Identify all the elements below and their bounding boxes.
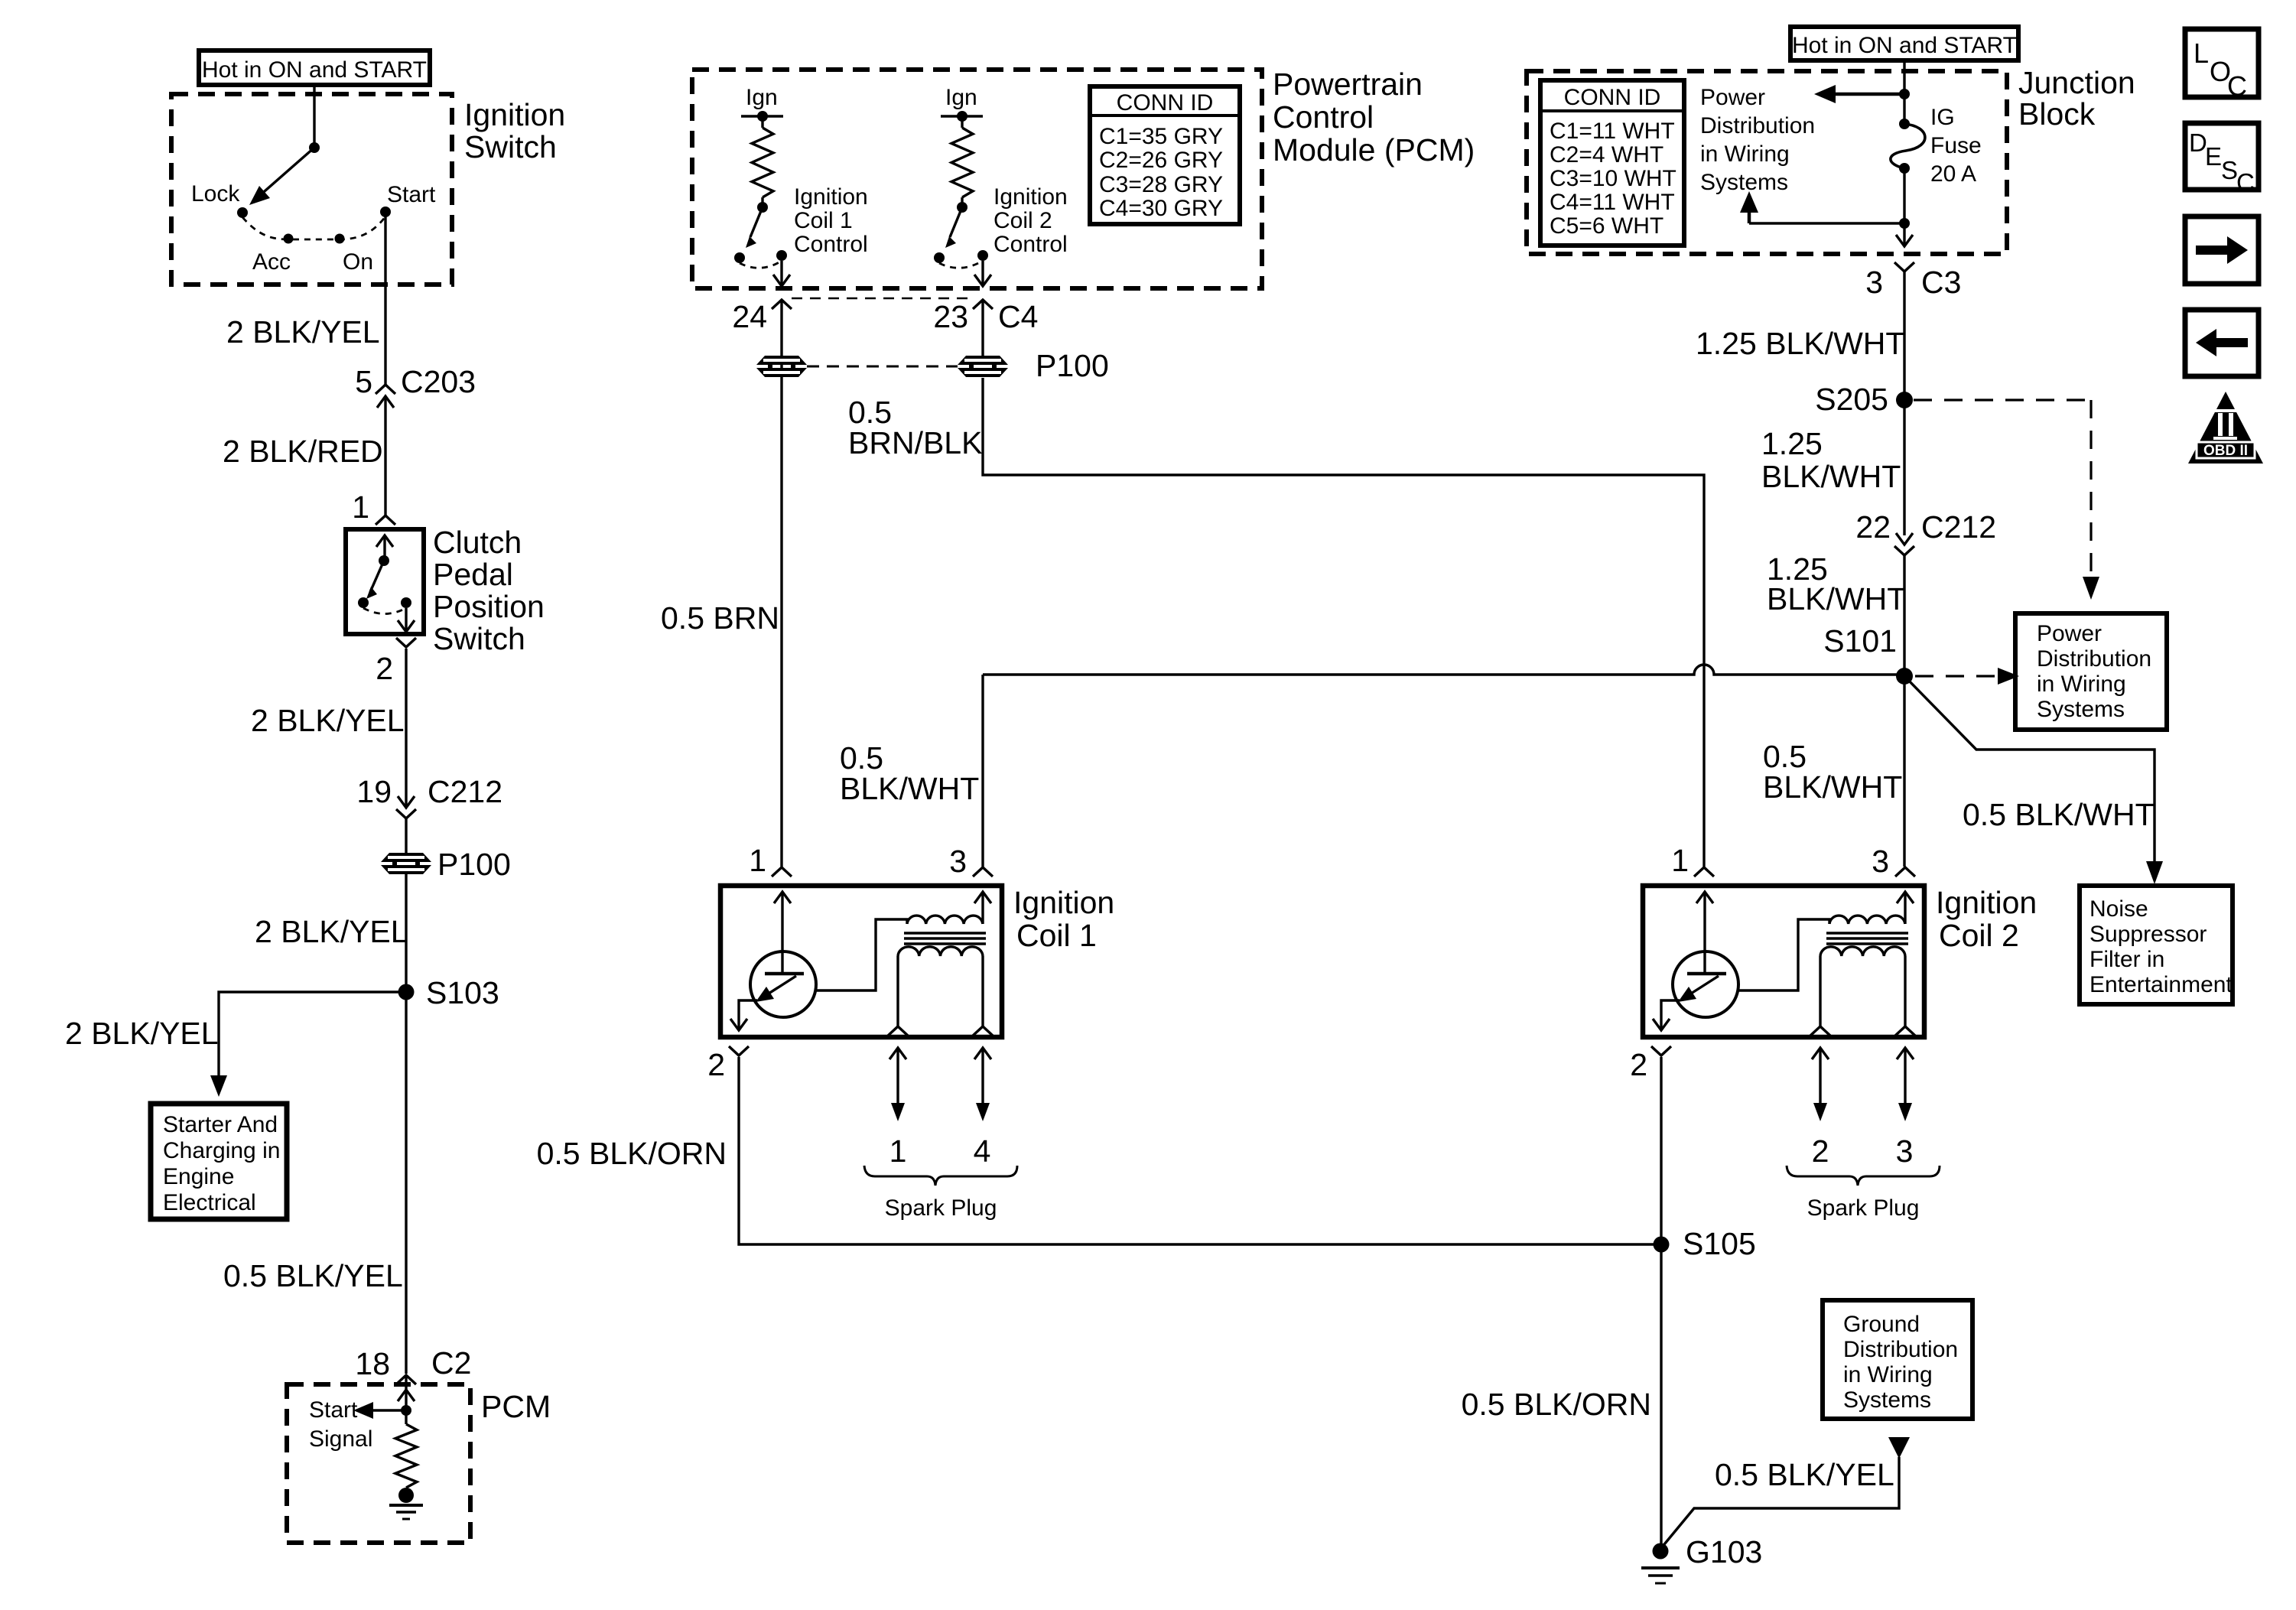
connector C203 symbol (double chevron): [376, 385, 395, 394]
wire: P100 to splice S103: [405, 874, 407, 992]
branch wire from S103 to Starter And Charging reference: [219, 992, 406, 1077]
svg-text:0.5 BLK/ORN: 0.5 BLK/ORN: [1462, 1387, 1651, 1422]
svg-text:BRN/BLK: BRN/BLK: [848, 425, 982, 460]
svg-text:22: 22: [1855, 509, 1891, 545]
svg-text:S101: S101: [1823, 623, 1897, 659]
clutch switch detent arc (dashed): [363, 608, 406, 614]
svg-text:Systems: Systems: [2037, 697, 2125, 722]
Lock contact: [237, 207, 248, 218]
splice S205: [1896, 392, 1913, 408]
svg-text:C4=11 WHT: C4=11 WHT: [1550, 190, 1675, 215]
svg-text:CONN ID: CONN ID: [1564, 85, 1661, 110]
svg-text:Ign: Ign: [746, 85, 778, 110]
Acc contact: [284, 234, 294, 244]
wire: S205 to C212: [1903, 400, 1905, 535]
svg-text:Fuse: Fuse: [1930, 133, 1982, 158]
svg-text:Filter in: Filter in: [2089, 947, 2164, 972]
svg-text:Ignition: Ignition: [1936, 885, 2037, 920]
svg-text:S: S: [2221, 156, 2238, 184]
svg-text:Distribution: Distribution: [1843, 1337, 1958, 1362]
svg-text:Control: Control: [1273, 99, 1374, 135]
clutch switch internal arrow down: [405, 608, 407, 630]
coil 1 secondary right terminal: [981, 956, 984, 1026]
driver resistor 1: [761, 116, 763, 128]
svg-text:4: 4: [974, 1134, 991, 1169]
svg-text:in Wiring: in Wiring: [1843, 1362, 1933, 1387]
svg-text:19: 19: [356, 774, 392, 809]
CONN ID table (junction block): [1540, 80, 1684, 246]
coil 2 pin 2 connector chevron: [1651, 1046, 1671, 1055]
svg-text:L: L: [2194, 37, 2209, 69]
coil 1 secondary left terminal: [896, 956, 899, 1026]
wire: S101 down to coil 2 pin 3: [1903, 676, 1905, 867]
svg-text:0.5 BLK/YEL: 0.5 BLK/YEL: [223, 1258, 403, 1293]
wire: S103 down to PCM pin 18: [405, 992, 407, 1374]
svg-text:C5=6 WHT: C5=6 WHT: [1550, 213, 1663, 239]
LOC icon box: [2185, 29, 2259, 97]
coil 2 transistor emitter with arrowhead: [1683, 976, 1719, 999]
junction block dashed outline: [1527, 71, 2007, 254]
svg-text:in Wiring: in Wiring: [2037, 672, 2126, 697]
svg-text:On: On: [343, 249, 373, 275]
svg-text:CONN ID: CONN ID: [1117, 90, 1214, 115]
svg-text:3: 3: [1896, 1134, 1914, 1169]
svg-text:2 BLK/RED: 2 BLK/RED: [223, 434, 383, 469]
svg-text:Coil 1: Coil 1: [1016, 918, 1097, 953]
svg-text:0.5 BLK/YEL: 0.5 BLK/YEL: [1715, 1457, 1894, 1492]
svg-text:Coil 2: Coil 2: [994, 208, 1052, 233]
off-page reference box: Noise Suppressor Filter in Entertainment: [2080, 886, 2233, 1004]
wire: down to coil 1 pin 3: [981, 675, 984, 867]
ignition switch movable arm with arrowhead to Lock: [259, 148, 314, 197]
connector C3 chevron: [1894, 262, 1914, 272]
driver 1 detent arc (dashed): [740, 261, 782, 268]
clutch switch pin 1 connector chevron: [376, 516, 395, 525]
svg-text:Spark Plug: Spark Plug: [1807, 1195, 1920, 1221]
driver 1 output node: [761, 197, 763, 203]
svg-text:3: 3: [949, 844, 967, 879]
svg-text:Switch: Switch: [433, 621, 525, 656]
pass-through connector P100 (coil 1 control): [756, 356, 807, 365]
coil 2 pin 1 internal arrow up / transistor collector: [1703, 893, 1706, 974]
pass-through connector P100 (coil 2 control): [958, 356, 1008, 365]
pin 23 connector chevron: [973, 300, 993, 309]
splice S105: [1654, 1237, 1670, 1253]
svg-text:Hot in ON and START: Hot in ON and START: [1792, 33, 2017, 58]
wire: clutch switch to C212: [405, 649, 407, 806]
off-page reference box: Power Distribution in Wiring Systems: [2015, 613, 2167, 730]
svg-text:1.25: 1.25: [1761, 426, 1823, 461]
driver 2 switch arm with arrowhead: [950, 207, 962, 237]
svg-text:C3: C3: [1921, 265, 1961, 300]
svg-text:Power: Power: [2037, 621, 2102, 646]
ignition coil 2 box: [1643, 886, 1924, 1037]
svg-text:C212: C212: [428, 774, 502, 809]
solid left arrow to power distribution: [1836, 93, 1904, 96]
svg-text:P100: P100: [437, 847, 511, 882]
clutch switch pin 2 connector chevron: [396, 638, 416, 647]
svg-text:Systems: Systems: [1843, 1387, 1931, 1413]
coil 1 core: [904, 932, 986, 934]
svg-text:0.5 BRN: 0.5 BRN: [661, 600, 779, 636]
wire: C212 to P100: [405, 818, 407, 853]
svg-text:0.5 BLK/ORN: 0.5 BLK/ORN: [537, 1136, 727, 1171]
pass-through connector P100 (left): [381, 853, 431, 862]
svg-text:Position: Position: [433, 589, 545, 624]
svg-text:C4=30 GRY: C4=30 GRY: [1099, 196, 1223, 221]
svg-text:Engine: Engine: [163, 1164, 234, 1189]
connector C212 (right) symbol: [1896, 533, 1913, 545]
dashed branch from S205 to power distribution reference: [1914, 398, 2091, 401]
svg-text:2 BLK/YEL: 2 BLK/YEL: [255, 914, 408, 949]
svg-text:Acc: Acc: [252, 249, 291, 275]
detent arc Lock-Acc-On-Start (dashed): [242, 216, 385, 239]
svg-text:2: 2: [1812, 1134, 1829, 1169]
fuse-supply tag box: Hot in ON and START (right): [1790, 27, 2018, 60]
svg-text:C203: C203: [401, 364, 476, 399]
svg-text:C3=10 WHT: C3=10 WHT: [1550, 166, 1676, 191]
clutch pedal position switch box: [346, 529, 424, 634]
svg-text:C1=35 GRY: C1=35 GRY: [1099, 124, 1223, 149]
svg-text:0.5 BLK/WHT: 0.5 BLK/WHT: [1963, 797, 2155, 832]
svg-text:1: 1: [889, 1134, 907, 1169]
driver 1 left contact: [734, 252, 745, 263]
svg-text:Spark Plug: Spark Plug: [885, 1195, 997, 1221]
svg-text:Block: Block: [2018, 96, 2096, 132]
svg-text:Start: Start: [309, 1397, 358, 1423]
coil 1 pin 1 internal arrow up / transistor collector: [781, 893, 783, 974]
clutch switch internal arrow up: [383, 537, 385, 559]
svg-text:Ignition: Ignition: [994, 184, 1068, 210]
back arrow icon box: [2185, 310, 2259, 376]
coil 1 primary winding: [907, 916, 983, 924]
Start contact: [380, 207, 391, 217]
coil 2 driver transistor: [1673, 951, 1738, 1017]
svg-text:Control: Control: [794, 232, 868, 257]
svg-text:Powertrain: Powertrain: [1273, 67, 1423, 102]
clutch switch lower-right contact: [401, 597, 411, 608]
svg-text:Distribution: Distribution: [2037, 646, 2151, 672]
svg-text:1: 1: [749, 843, 766, 878]
coil 2 secondary right terminal: [1904, 956, 1906, 1026]
junction feed node: [1899, 89, 1910, 99]
svg-text:Junction: Junction: [2018, 65, 2135, 100]
CONN ID table (PCM): [1090, 86, 1240, 224]
driver 2 left contact: [934, 252, 945, 263]
clutch switch lower-left contact: [358, 597, 369, 608]
connector C2 chevron: [396, 1375, 416, 1384]
ignition coil 1 box: [720, 886, 1002, 1037]
svg-text:Coil 2: Coil 2: [1939, 918, 2019, 953]
coil 2 pin 1 connector chevron: [1694, 867, 1714, 877]
svg-text:23: 23: [933, 299, 968, 334]
PCM internal ground symbol: [389, 1504, 423, 1507]
coil 2 transistor base wire to primary winding: [1738, 919, 1829, 990]
ground distribution down arrow: [1888, 1437, 1910, 1459]
branch with solid up arrow to power distribution: [1749, 222, 1904, 224]
svg-text:C2=26 GRY: C2=26 GRY: [1099, 148, 1223, 173]
ignition switch common node: [309, 142, 320, 153]
svg-text:2 BLK/YEL: 2 BLK/YEL: [65, 1016, 219, 1051]
svg-text:Ignition: Ignition: [794, 184, 868, 210]
clutch switch upper contact: [379, 555, 389, 566]
svg-text:E: E: [2205, 142, 2222, 171]
DESC icon box: [2185, 123, 2259, 190]
svg-text:2: 2: [1630, 1047, 1647, 1082]
coil 1 pin 1 connector chevron: [772, 867, 792, 877]
svg-text:Ignition: Ignition: [1013, 885, 1114, 920]
wire: C212 to splice S101: [1903, 555, 1905, 676]
wire: Start contact down to C203: [384, 212, 386, 385]
coil 1 driver transistor: [750, 951, 816, 1017]
ignition switch dashed outline: [171, 94, 452, 285]
coil 1 primary to pin 3 arrow: [981, 893, 984, 924]
PCM (bottom) dashed outline: [287, 1384, 470, 1543]
svg-text:2: 2: [376, 651, 393, 686]
coil 1 pin 3 connector chevron: [973, 867, 993, 877]
svg-text:20 A: 20 A: [1930, 161, 1976, 187]
coil 2 pin 3 connector chevron: [1895, 867, 1915, 877]
svg-text:P100: P100: [1036, 348, 1109, 383]
coil 1 spark output arrows: [896, 1049, 899, 1106]
svg-text:18: 18: [355, 1346, 390, 1381]
svg-text:2 BLK/YEL: 2 BLK/YEL: [251, 703, 405, 738]
svg-text:Control: Control: [994, 232, 1068, 257]
svg-text:Coil 1: Coil 1: [794, 208, 853, 233]
Ign supply rail (coil 2 driver): [941, 115, 983, 117]
off-page reference box: Starter And Charging in Engine Electrical: [151, 1104, 287, 1219]
wire: coil 1 pin 2 down and right to splice S105: [739, 1057, 1661, 1244]
svg-text:1: 1: [1671, 843, 1689, 878]
svg-text:C: C: [2227, 70, 2247, 102]
svg-text:Noise: Noise: [2089, 896, 2148, 922]
IG fuse: [1899, 119, 1910, 129]
On contact: [335, 234, 345, 244]
driver 2 detent arc (dashed): [939, 261, 983, 268]
svg-text:Start: Start: [387, 182, 436, 207]
svg-text:Pedal: Pedal: [433, 557, 513, 592]
svg-text:BLK/WHT: BLK/WHT: [1761, 459, 1901, 494]
svg-text:S103: S103: [426, 975, 499, 1010]
svg-text:Starter And: Starter And: [163, 1112, 278, 1137]
junction branch node: [1899, 218, 1910, 229]
connector C212 symbol (arrow + chevron): [398, 796, 415, 808]
svg-text:2: 2: [707, 1047, 725, 1082]
svg-text:Ground: Ground: [1843, 1312, 1920, 1337]
svg-text:Charging in: Charging in: [163, 1138, 280, 1163]
branch from S101 to noise suppressor filter: [1904, 676, 2155, 863]
svg-text:C2: C2: [431, 1345, 471, 1381]
wire: C203 to clutch switch pin 1: [384, 396, 386, 516]
fuse-supply tag box: Hot in ON and START (left): [199, 50, 430, 85]
svg-text:Power: Power: [1700, 85, 1765, 110]
wire: coil 2 control from P100 right and down to coil 2 pin 1: [983, 378, 1704, 867]
svg-text:C3=28 GRY: C3=28 GRY: [1099, 172, 1223, 197]
coil 1 transistor base wire to primary winding: [816, 919, 907, 990]
svg-text:24: 24: [732, 299, 767, 334]
horizontal feed wire from coil 1 pin 3 to S101 with crossover hop: [983, 665, 1904, 675]
coil 2 secondary winding: [1820, 947, 1905, 956]
PCM internal pull resistor: [395, 1424, 417, 1488]
svg-text:2 BLK/YEL: 2 BLK/YEL: [226, 314, 380, 350]
PCM internal ground node: [405, 1488, 407, 1495]
splice S101: [1896, 668, 1913, 685]
wire below fuse: [1903, 168, 1905, 245]
coil 1 pin 2 connector chevron: [729, 1046, 749, 1055]
svg-text:Ignition: Ignition: [464, 97, 565, 132]
spark plug brace (coil 2): [1787, 1166, 1940, 1186]
driver 2 right contact: [977, 250, 988, 261]
forward arrow icon box: [2185, 216, 2259, 284]
svg-text:Module (PCM): Module (PCM): [1273, 132, 1475, 168]
coil 2 primary winding: [1829, 916, 1905, 924]
spark plug brace (coil 1): [864, 1166, 1017, 1186]
svg-text:G103: G103: [1686, 1534, 1762, 1569]
svg-text:BLK/WHT: BLK/WHT: [840, 771, 979, 806]
svg-text:3: 3: [1872, 844, 1889, 879]
coil 2 secondary left terminal: [1819, 956, 1821, 1026]
wire: pin 23 to P100: [981, 301, 984, 356]
svg-text:C2=4 WHT: C2=4 WHT: [1550, 142, 1663, 168]
svg-text:5: 5: [355, 364, 372, 399]
dashed branch from S101 to power distribution reference: [1915, 675, 1999, 677]
coil 2 core: [1826, 932, 1908, 934]
clutch switch arm with arrowhead: [370, 561, 384, 592]
svg-text:Systems: Systems: [1700, 170, 1788, 195]
P100 dashed pairing link: [807, 366, 958, 368]
svg-text:Hot in ON and START: Hot in ON and START: [202, 57, 427, 83]
svg-text:PCM: PCM: [481, 1389, 551, 1424]
Ign supply rail (coil 1 driver): [741, 115, 783, 117]
driver 1 switch arm with arrowhead: [750, 207, 763, 237]
coil 2 spark output arrows: [1819, 1049, 1821, 1106]
svg-text:Switch: Switch: [464, 129, 557, 164]
coil 1 secondary winding: [898, 947, 983, 956]
svg-text:IG: IG: [1930, 105, 1955, 130]
PCM internal start-signal wire with arrow up: [405, 1377, 407, 1424]
coil 2 primary to pin 3 arrow: [1904, 893, 1906, 924]
svg-text:OBD II: OBD II: [2203, 443, 2248, 459]
svg-text:Electrical: Electrical: [163, 1190, 256, 1215]
svg-text:C: C: [2236, 168, 2255, 197]
svg-text:Entertainment: Entertainment: [2089, 972, 2233, 997]
wire: coil 2 pin 2 down to splice S105: [1660, 1057, 1662, 1244]
OBD II icon: [2188, 392, 2263, 463]
svg-text:C4: C4: [998, 299, 1038, 334]
connector C4 dashed link between pins 24 and 23: [792, 298, 973, 300]
svg-text:Clutch: Clutch: [433, 525, 522, 560]
driver 1 output wire with arrow down to pin 24: [780, 261, 782, 285]
wire from ground distribution to G103: [1661, 1457, 1899, 1548]
wire: S105 down to ground G103: [1660, 1244, 1662, 1551]
wire: pin 24 to P100: [780, 301, 782, 867]
wire from hot tag into ignition switch: [313, 85, 315, 146]
svg-text:BLK/WHT: BLK/WHT: [1763, 769, 1902, 805]
junction exit arrow down: [1896, 235, 1913, 246]
driver 2 output node: [961, 197, 963, 203]
driver 2 output wire with arrow down to pin 23: [981, 261, 984, 285]
PCM internal node: [401, 1405, 411, 1416]
svg-text:Lock: Lock: [191, 181, 240, 207]
svg-text:S205: S205: [1815, 382, 1888, 417]
svg-text:1: 1: [352, 490, 369, 525]
svg-text:BLK/WHT: BLK/WHT: [1767, 581, 1906, 616]
svg-text:Suppressor: Suppressor: [2089, 922, 2207, 947]
svg-text:1.25 BLK/WHT: 1.25 BLK/WHT: [1696, 326, 1904, 361]
svg-text:in Wiring: in Wiring: [1700, 141, 1790, 167]
svg-text:C1=11 WHT: C1=11 WHT: [1550, 119, 1675, 144]
svg-text:Distribution: Distribution: [1700, 113, 1815, 138]
driver resistor 2: [961, 116, 963, 128]
Powertrain Control Module dashed outline: [692, 70, 1262, 288]
coil 1 transistor emitter with arrowhead: [760, 976, 796, 999]
G103 ground symbol: [1641, 1566, 1680, 1569]
start signal branch with solid left arrow: [373, 1409, 406, 1411]
svg-text:C212: C212: [1921, 509, 1996, 545]
splice S103: [398, 984, 415, 1000]
svg-text:Signal: Signal: [309, 1426, 372, 1452]
svg-text:Ign: Ign: [945, 85, 977, 110]
ground G103: [1653, 1543, 1669, 1560]
wire from hot tag into junction block: [1903, 60, 1905, 124]
wire: C3 down to splice S205: [1903, 272, 1905, 400]
pin 24 connector chevron: [772, 300, 792, 309]
svg-text:3: 3: [1865, 265, 1883, 300]
driver 1 right contact: [776, 250, 787, 261]
svg-text:S105: S105: [1683, 1226, 1756, 1261]
off-page reference box: Ground Distribution in Wiring Systems: [1823, 1300, 1972, 1419]
